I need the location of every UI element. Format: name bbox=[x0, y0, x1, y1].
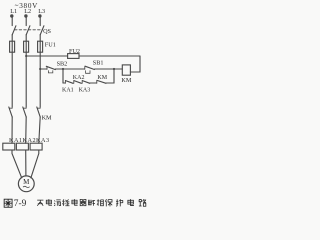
node L2 terminal bbox=[24, 14, 27, 17]
svg-text:SB1: SB1 bbox=[93, 60, 104, 67]
svg-text:FU2: FU2 bbox=[69, 48, 80, 55]
node L1 terminal bbox=[10, 14, 13, 17]
pushbutton SB1 (NO start) bbox=[84, 67, 86, 70]
svg-text:KM: KM bbox=[42, 115, 52, 122]
wire through fuse pole1 bbox=[11, 41, 13, 52]
hanzi 流 bbox=[54, 200, 61, 206]
hanzi 护 bbox=[116, 199, 123, 206]
wire pole3 fuse to KM contact bbox=[39, 52, 41, 107]
svg-text:L2: L2 bbox=[24, 8, 31, 15]
hanzi 路 bbox=[139, 199, 146, 206]
wire rail corner drop bbox=[130, 56, 140, 72]
svg-text:KA2: KA2 bbox=[73, 75, 85, 81]
wire L1 drop to switch bbox=[11, 17, 13, 25]
svg-text:FU1: FU1 bbox=[45, 42, 56, 49]
wire pole3 to relay coil bbox=[39, 117, 40, 143]
relay coil KA1 bbox=[3, 143, 15, 150]
wire control rail right (FU2 to corner) bbox=[79, 55, 140, 57]
hanzi 保 bbox=[105, 199, 112, 206]
contact KA2 (NO) bbox=[73, 81, 75, 84]
contactor KM main contact pole2 bbox=[24, 107, 26, 109]
hanzi 欠 bbox=[37, 200, 43, 206]
contact KM aux (NO self-hold) bbox=[96, 80, 98, 83]
wire branch row right + riser bbox=[106, 69, 114, 83]
wire pole1 to relay coil bbox=[11, 117, 13, 143]
wire pole2 fuse to KM contact bbox=[25, 52, 27, 107]
node A junction bbox=[62, 68, 64, 70]
fuse FU1 pole3 bbox=[38, 41, 43, 52]
wire motor lead mid bbox=[25, 150, 27, 176]
svg-text:SB2: SB2 bbox=[57, 61, 68, 68]
wire pole2 switch to fuse bbox=[25, 35, 27, 41]
wire pole1 switch to fuse bbox=[11, 35, 13, 41]
svg-text:7-9: 7-9 bbox=[14, 199, 27, 209]
caption 图 7-9 欠电流继电器断相保护电路 bbox=[4, 199, 146, 209]
hanzi 断 bbox=[89, 200, 96, 206]
fuse FU2 bbox=[68, 54, 79, 59]
svg-text:M: M bbox=[23, 178, 30, 186]
svg-text:KM: KM bbox=[121, 77, 131, 84]
node junction pole2 control tap bbox=[25, 55, 27, 57]
contactor KM main contact pole1 bbox=[10, 107, 12, 109]
wire branch row left stub bbox=[63, 82, 65, 84]
wire through fuse pole3 bbox=[39, 41, 41, 52]
svg-text:KM: KM bbox=[97, 75, 107, 81]
svg-text:KA1: KA1 bbox=[62, 87, 74, 93]
hanzi 电 (3) bbox=[128, 199, 134, 205]
wire pole3 switch to fuse bbox=[39, 35, 41, 41]
motor M circle bbox=[18, 176, 34, 192]
wire SB1 to coil bbox=[95, 68, 123, 70]
hanzi 图 bbox=[4, 199, 12, 207]
hanzi 相 bbox=[97, 199, 104, 206]
switch QS pole 1 blade bbox=[12, 26, 16, 35]
wire pole2 to relay coil bbox=[25, 117, 28, 143]
svg-text:KA1KA2KA3: KA1KA2KA3 bbox=[9, 137, 50, 144]
svg-text:L1: L1 bbox=[10, 8, 17, 15]
wire L3 drop to switch bbox=[39, 17, 41, 25]
contact KA1 (NO) bbox=[64, 81, 66, 84]
relay coil KA2 bbox=[16, 143, 28, 150]
wire through fuse pole2 bbox=[25, 41, 27, 52]
node junction pole3 control tap bbox=[39, 68, 41, 70]
hanzi 电 (2) bbox=[72, 199, 78, 205]
wire control rail left (pole2 to FU2) bbox=[26, 55, 67, 57]
switch QS pole 3 blade bbox=[40, 26, 44, 35]
hanzi 器 bbox=[80, 199, 86, 205]
fuse FU1 pole1 bbox=[10, 41, 15, 52]
relay coil KA3 bbox=[30, 143, 42, 150]
svg-text:L3: L3 bbox=[38, 8, 45, 15]
node B junction bbox=[113, 68, 115, 70]
switch QS pole 2 blade bbox=[26, 26, 30, 35]
contact KA3 (NO) bbox=[81, 81, 83, 84]
motor tilde bbox=[23, 186, 29, 187]
fuse FU1 pole2 bbox=[24, 41, 29, 52]
wire L2 drop to switch bbox=[25, 17, 27, 25]
hanzi 电 bbox=[46, 199, 52, 205]
contactor KM main contact pole3 bbox=[38, 107, 40, 109]
wire pole1 fuse to KM contact bbox=[11, 52, 13, 107]
coil KM bbox=[122, 65, 130, 75]
wire control row from pole3 tap bbox=[40, 68, 46, 70]
switch QS linkage dashed bbox=[15, 29, 43, 31]
wire node A dropper bbox=[62, 69, 64, 83]
wire branch row middle bbox=[90, 82, 97, 84]
svg-text:KA3: KA3 bbox=[79, 87, 91, 93]
pushbutton SB2 (NC stop) bbox=[46, 67, 48, 70]
hanzi 继 bbox=[63, 199, 70, 206]
node L3 terminal bbox=[38, 14, 41, 17]
wire motor lead right bbox=[31, 150, 39, 178]
svg-text:QS: QS bbox=[43, 28, 51, 35]
wire SB2 to node A bbox=[55, 68, 84, 70]
wire motor lead left bbox=[12, 150, 22, 178]
